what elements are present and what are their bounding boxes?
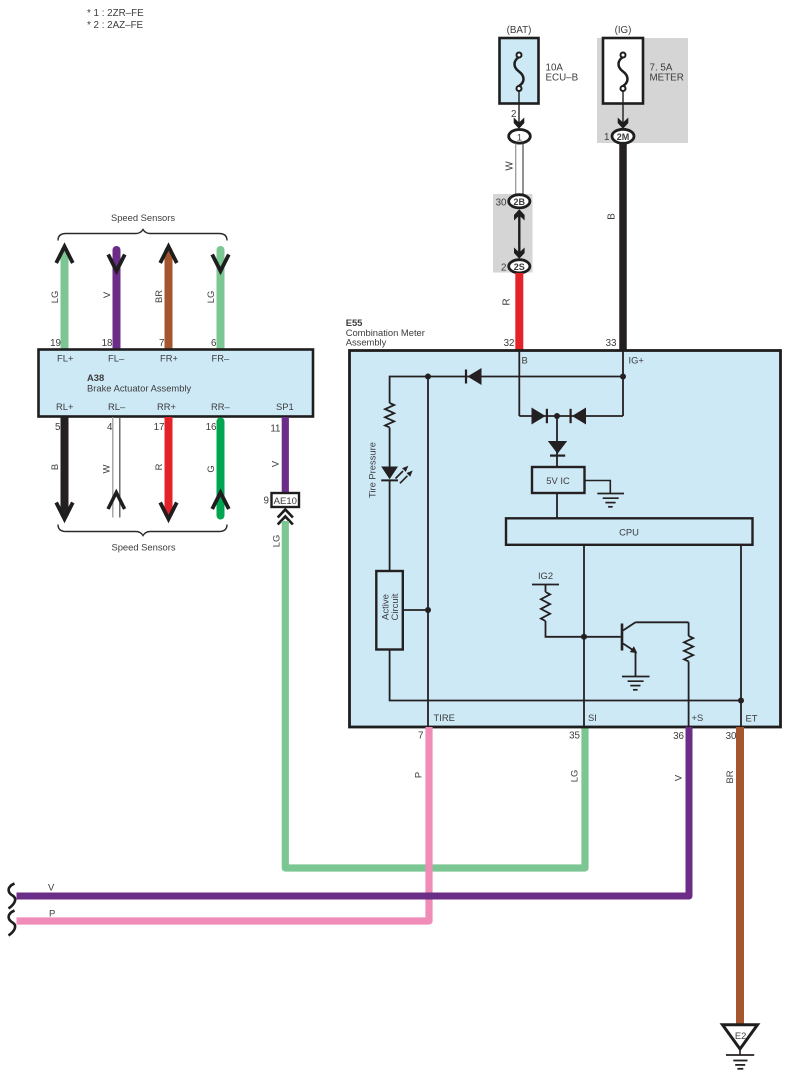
- connector oval 2S: [509, 260, 530, 273]
- junction link arrow 2B-2S: [514, 209, 525, 259]
- wire continuation squiggle P: [9, 911, 16, 936]
- gray block around METER fuse: [597, 38, 688, 143]
- svg-text:(IG): (IG): [615, 25, 632, 36]
- svg-text:BR: BR: [724, 770, 735, 783]
- svg-text:FR+: FR+: [160, 353, 178, 364]
- IG2 terminal bar: [532, 584, 559, 586]
- svg-text:R: R: [502, 298, 513, 305]
- svg-text:BR: BR: [153, 290, 164, 303]
- svg-text:W: W: [505, 161, 516, 171]
- svg-text:5V IC: 5V IC: [546, 475, 570, 486]
- svg-text:Tire Pressure: Tire Pressure: [367, 442, 378, 498]
- wire emitter to ground: [635, 653, 637, 677]
- svg-text:RL+: RL+: [56, 401, 74, 412]
- diode D2 from B: [532, 408, 547, 425]
- svg-text:V: V: [673, 774, 684, 781]
- wire internal IG+ vertical: [622, 351, 624, 416]
- arrowhead FR-: [212, 255, 229, 272]
- svg-text:R: R: [153, 463, 164, 470]
- svg-text:V: V: [270, 460, 281, 467]
- fuse METER box: [603, 38, 643, 104]
- svg-text:2B: 2B: [514, 197, 526, 207]
- connector oval 2B: [509, 195, 530, 208]
- wire W (white) connector 1 to 2B: [516, 144, 523, 196]
- svg-text:33: 33: [606, 338, 617, 349]
- svg-text:Speed Sensors: Speed Sensors: [111, 212, 175, 223]
- arrowhead RR+: [160, 503, 177, 520]
- wire internal B vertical: [518, 351, 520, 416]
- wire R (red) 2S to E55 pin 32: [515, 273, 523, 350]
- resistor R3: [684, 636, 693, 661]
- svg-text:Assembly: Assembly: [346, 337, 387, 348]
- wire internal diode row: [519, 415, 623, 417]
- CPU box: [506, 518, 753, 545]
- svg-text:ET: ET: [746, 713, 758, 724]
- svg-text:SP1: SP1: [276, 401, 294, 412]
- wire 5V IC to CPU: [556, 493, 558, 518]
- svg-text:19: 19: [50, 338, 61, 349]
- wire fuse METER to connector 2M: [622, 91, 624, 126]
- label Active Circuit: [381, 593, 402, 620]
- wire TIRE vertical: [427, 377, 429, 727]
- wire R1 to LED: [389, 428, 391, 467]
- node junction top rail / TIRE branch: [425, 374, 431, 380]
- svg-text:LG: LG: [569, 770, 580, 783]
- wire LG from AE10 to E55 pin SI: [285, 521, 585, 868]
- svg-text:* 2 : 2AZ–FE: * 2 : 2AZ–FE: [87, 20, 144, 31]
- arrowhead RR-: [212, 493, 229, 510]
- ground symbol at 5V IC: [597, 494, 624, 507]
- svg-text:W: W: [101, 464, 112, 473]
- svg-text:FL+: FL+: [57, 353, 74, 364]
- svg-text:* 1 : 2ZR–FE: * 1 : 2ZR–FE: [87, 8, 144, 19]
- svg-text:Speed Sensors: Speed Sensors: [111, 542, 175, 553]
- wire V from SP1 to AE10: [282, 417, 289, 493]
- svg-text:E2: E2: [735, 1030, 746, 1041]
- diode D4 series to 5V IC: [548, 441, 567, 456]
- svg-text:ECU–B: ECU–B: [546, 73, 579, 84]
- connector oval 2M: [612, 129, 634, 143]
- wire BR (brown) ET to ground E2: [736, 727, 744, 1025]
- wire V (violet) +S to left: [17, 727, 690, 896]
- wire continuation squiggle V: [9, 884, 16, 909]
- wire CPU to SI pin: [583, 545, 585, 726]
- wire fuse ECU-B to connector 1: [518, 91, 520, 126]
- svg-text:A38: A38: [87, 372, 104, 383]
- svg-text:B: B: [522, 355, 528, 366]
- AE10 double chevron: [278, 510, 293, 525]
- node junction diode row center: [554, 413, 560, 419]
- LED tire pressure indicator: [381, 466, 413, 484]
- wire P (pink) TIRE to left: [17, 727, 430, 921]
- svg-text:CPU: CPU: [619, 527, 639, 538]
- arrow into connector 2M: [618, 118, 629, 129]
- brake actuator A38 box: [39, 350, 314, 417]
- svg-text:RL–: RL–: [108, 401, 126, 412]
- wire W speed sensor RL-: [113, 417, 120, 518]
- svg-text:AE10: AE10: [274, 496, 297, 507]
- ground symbol at Q1 emitter: [622, 677, 650, 690]
- svg-text:Brake Actuator Assembly: Brake Actuator Assembly: [87, 383, 192, 394]
- svg-text:6: 6: [211, 338, 217, 349]
- node junction Active Circuit / TIRE: [425, 607, 431, 613]
- svg-text:+S: +S: [692, 712, 704, 723]
- brace under speed sensor wires: [58, 525, 227, 536]
- wire center to 5V IC: [556, 416, 558, 467]
- svg-text:1: 1: [517, 131, 522, 142]
- arrow into connector 1: [514, 118, 525, 129]
- svg-text:LG: LG: [271, 535, 282, 548]
- wire 5V IC to ground: [585, 481, 611, 494]
- wire LG speed sensor FL+: [61, 251, 69, 350]
- junction block (gray) 2B/2S: [493, 194, 533, 273]
- resistor R2 IG2 pull-up: [541, 592, 550, 621]
- 5V IC box: [532, 467, 585, 493]
- svg-text:7: 7: [418, 731, 423, 742]
- node junction top rail / IG+: [620, 374, 626, 380]
- wire BR speed sensor FR+: [165, 251, 173, 350]
- svg-text:P: P: [413, 772, 424, 778]
- svg-text:B: B: [607, 213, 618, 220]
- brace over speed sensor wires: [58, 230, 227, 241]
- ground E2 earth bars: [726, 1055, 754, 1069]
- wire R speed sensor RR+: [165, 417, 173, 516]
- svg-text:5: 5: [55, 422, 61, 433]
- svg-text:LG: LG: [205, 291, 216, 304]
- svg-text:16: 16: [206, 422, 217, 433]
- active circuit box: [376, 571, 403, 650]
- svg-text:RR–: RR–: [211, 401, 231, 412]
- wire IG2 to resistor: [545, 585, 547, 593]
- wire R3 to +S pin: [688, 662, 690, 727]
- svg-text:P: P: [49, 907, 55, 918]
- fuse ECU-B box: [500, 38, 539, 104]
- wire B (black) 2M to E55 pin 33: [619, 144, 627, 351]
- svg-text:V: V: [101, 291, 112, 298]
- ground E2 triangle: [723, 1025, 758, 1049]
- svg-text:35: 35: [569, 731, 580, 742]
- resistor R1 tire pressure: [385, 403, 394, 427]
- svg-text:36: 36: [673, 731, 684, 742]
- wire R3 top: [688, 622, 690, 636]
- wire B speed sensor RL+: [61, 417, 69, 516]
- svg-text:30: 30: [726, 731, 737, 742]
- node junction bottom rail / ET: [738, 698, 744, 704]
- svg-text:V: V: [48, 882, 55, 893]
- svg-text:B: B: [49, 464, 60, 470]
- svg-text:LG: LG: [49, 291, 60, 304]
- fuse METER element: [619, 53, 628, 92]
- fuse ECU-B element: [515, 53, 524, 92]
- wire CPU right vertical to ET: [740, 545, 742, 726]
- arrowhead RL-: [108, 493, 125, 510]
- wire internal bottom rail: [390, 650, 741, 701]
- wire G speed sensor RR-: [217, 422, 225, 516]
- svg-text:METER: METER: [650, 73, 684, 84]
- svg-text:G: G: [205, 465, 216, 472]
- wire internal top rail: [390, 377, 623, 404]
- diode D3 from IG+: [571, 408, 586, 425]
- connector AE10: [272, 493, 300, 507]
- svg-text:4: 4: [107, 422, 113, 433]
- arrowhead RL+: [56, 503, 73, 520]
- wire LED to Active Circuit: [389, 480, 391, 571]
- svg-text:9: 9: [264, 496, 269, 507]
- diode D1 on top rail: [466, 368, 482, 385]
- node junction SI / base: [581, 634, 587, 640]
- arrowhead FL+: [56, 247, 73, 264]
- wire LG speed sensor FR-: [217, 250, 225, 350]
- svg-text:SI: SI: [588, 712, 597, 723]
- wire collector to R3: [636, 621, 689, 623]
- wire V speed sensor FL-: [113, 250, 121, 350]
- svg-text:2M: 2M: [617, 132, 630, 142]
- svg-text:TIRE: TIRE: [434, 712, 455, 723]
- svg-text:IG2: IG2: [538, 570, 553, 581]
- combination meter E55 box: [350, 351, 781, 728]
- svg-text:17: 17: [154, 422, 165, 433]
- wire R2 to base node: [546, 621, 621, 637]
- svg-text:2: 2: [501, 263, 506, 274]
- svg-text:32: 32: [504, 338, 515, 349]
- svg-text:2S: 2S: [514, 262, 525, 272]
- svg-text:1: 1: [604, 132, 609, 143]
- arrowhead FL-: [108, 255, 125, 272]
- svg-text:30: 30: [496, 198, 507, 209]
- svg-text:18: 18: [102, 338, 113, 349]
- wire Active Circuit to TIRE branch: [403, 609, 428, 611]
- svg-text:RR+: RR+: [157, 401, 177, 412]
- connector oval 1: [509, 130, 531, 144]
- svg-text:7: 7: [159, 338, 164, 349]
- arrowhead FR+: [160, 247, 177, 264]
- svg-text:FL–: FL–: [108, 353, 125, 364]
- svg-text:11: 11: [270, 424, 280, 435]
- svg-text:Circuit: Circuit: [390, 593, 401, 620]
- ground E2 stem: [739, 1049, 741, 1055]
- svg-text:(BAT): (BAT): [507, 25, 532, 36]
- svg-text:FR–: FR–: [212, 353, 230, 364]
- transistor Q1: [622, 622, 637, 653]
- svg-text:IG+: IG+: [629, 355, 645, 366]
